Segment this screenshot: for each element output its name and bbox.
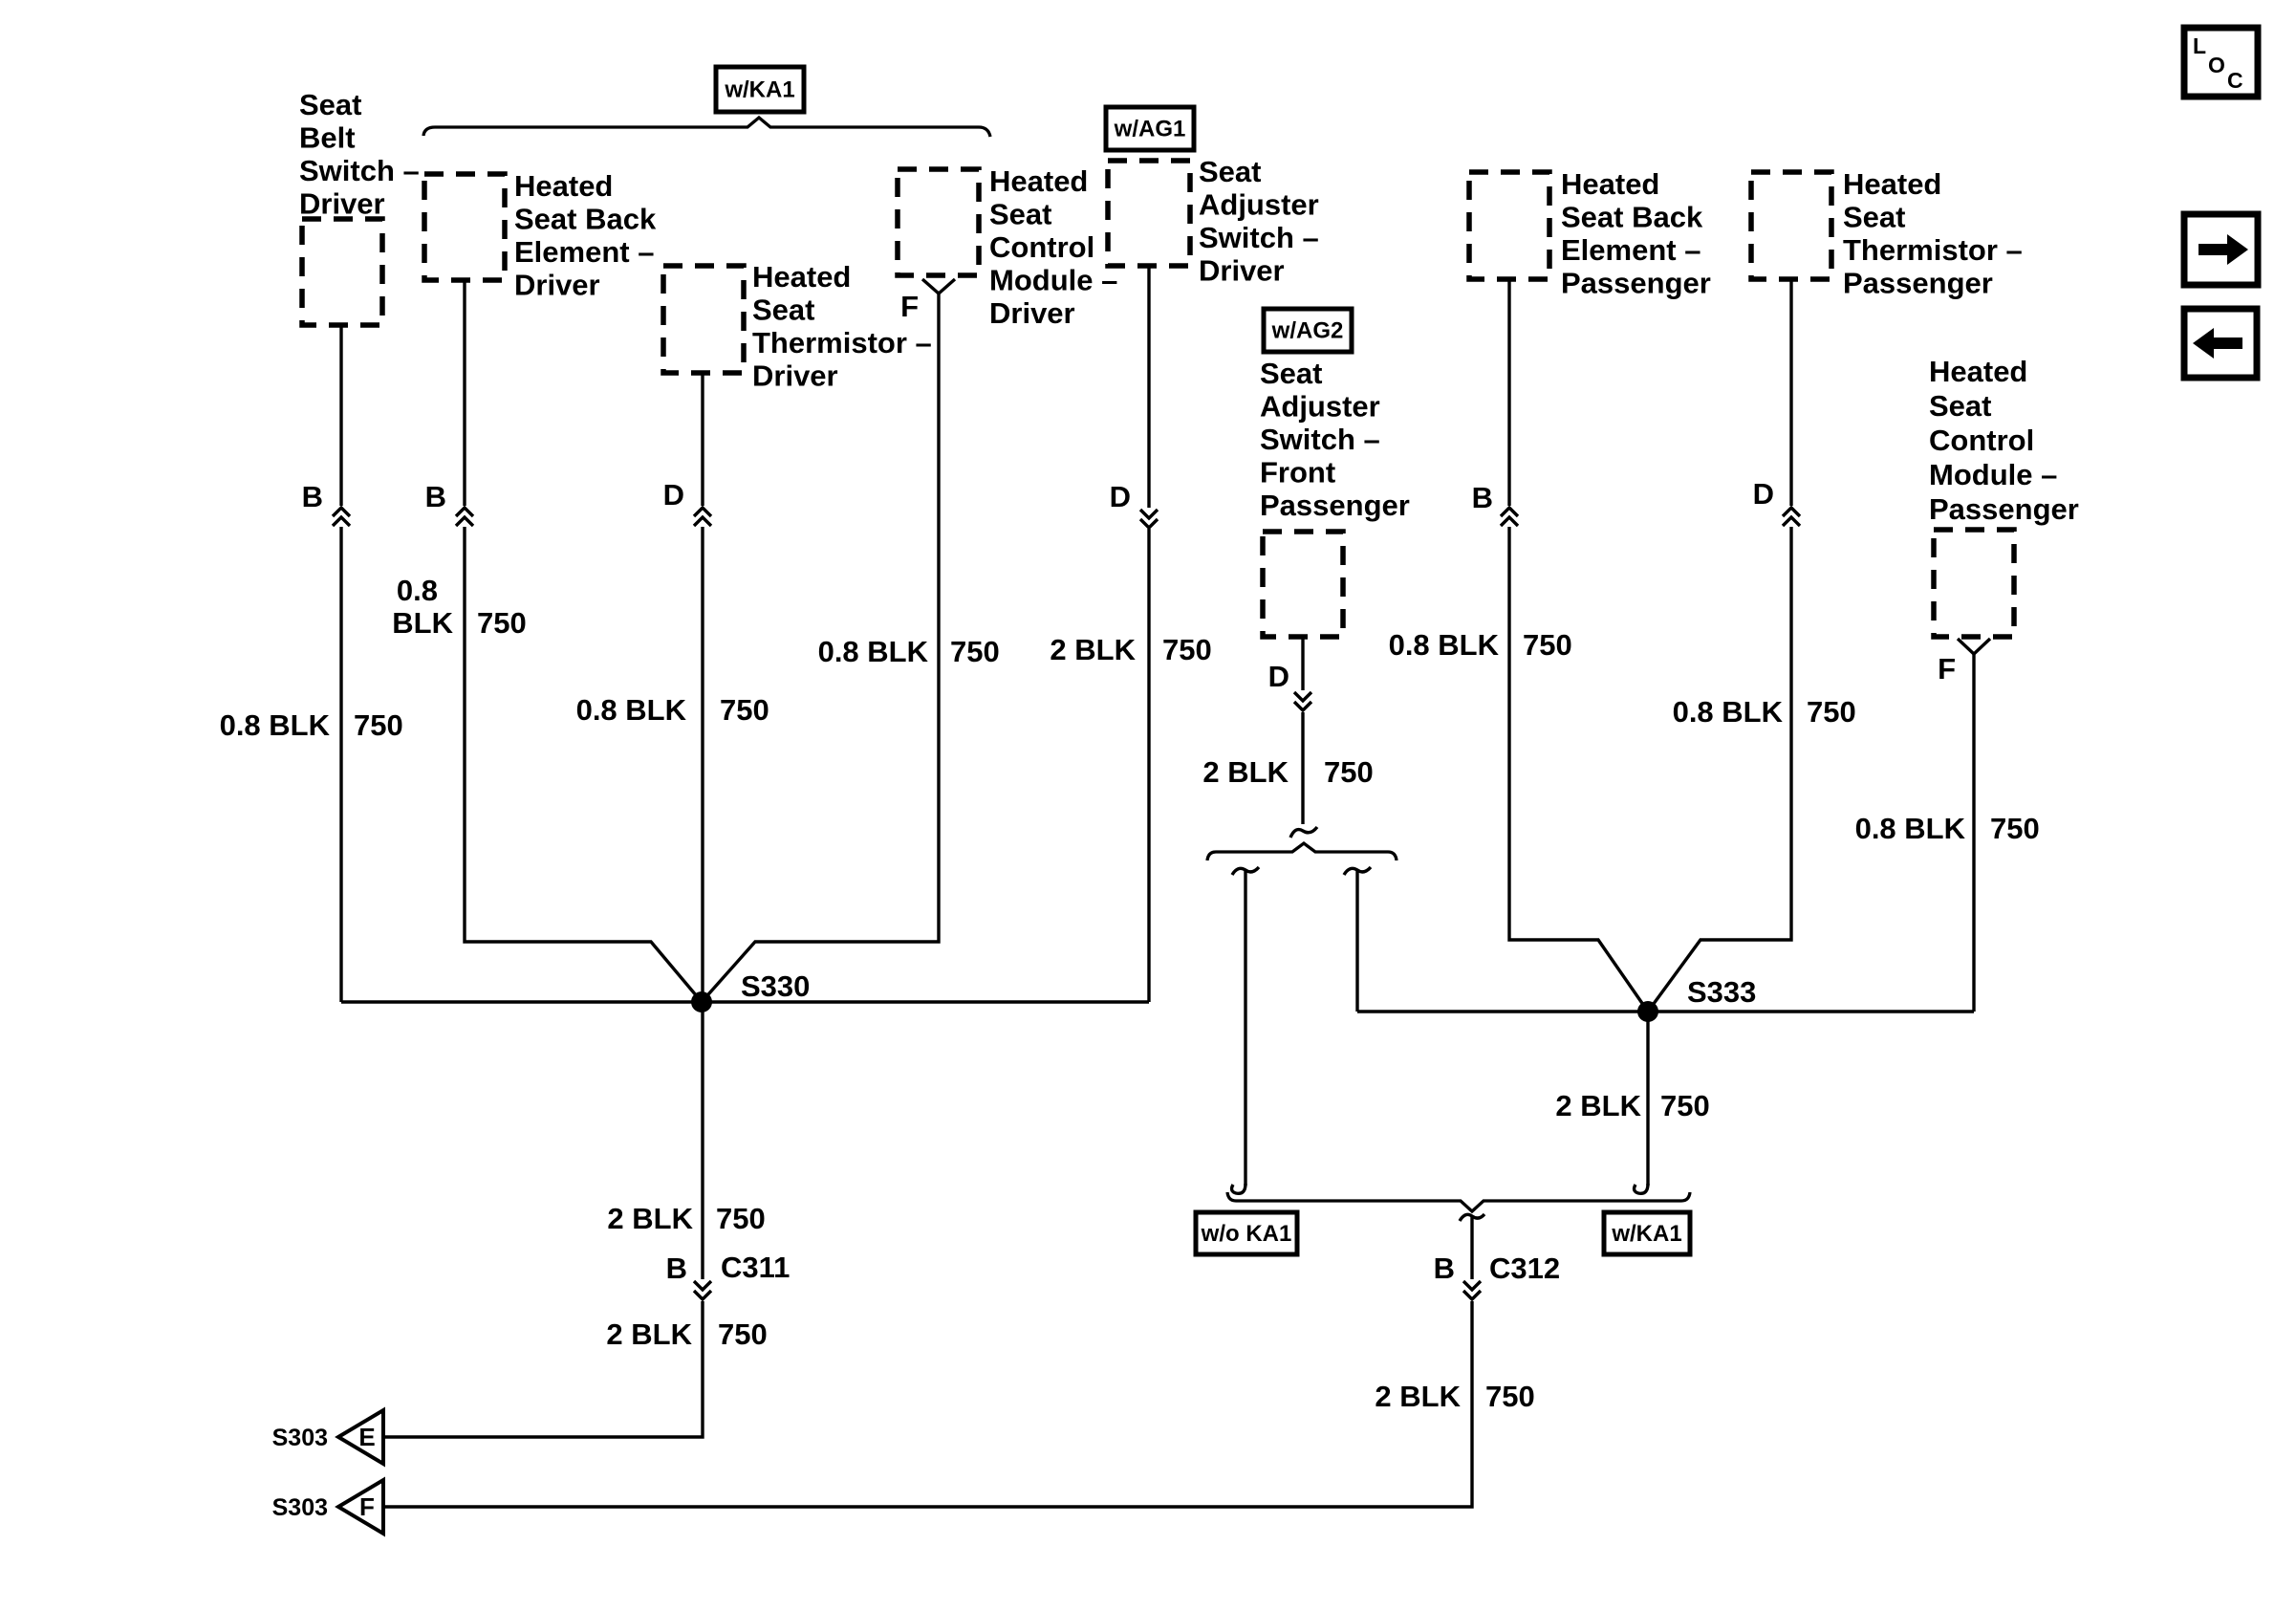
svg-text:Switch –: Switch –	[1199, 221, 1319, 254]
wire start hook (C312 drop)	[1460, 1214, 1484, 1221]
svg-text:S303: S303	[272, 1494, 328, 1521]
wire: adjuster switch driver drop, upper segment	[1147, 266, 1150, 508]
component box: Heated Seat Thermistor - Driver	[663, 266, 744, 373]
svg-text:0.8 BLK: 0.8 BLK	[818, 635, 929, 668]
svg-text:Heated: Heated	[1929, 355, 2027, 388]
svg-text:Driver: Driver	[752, 359, 838, 393]
component box: Heated Seat Back Element - Passenger	[1469, 172, 1549, 279]
wire: thermistor driver drop, upper segment	[701, 373, 704, 506]
svg-text:Seat: Seat	[989, 198, 1051, 231]
svg-text:Passenger: Passenger	[1929, 492, 2079, 526]
svg-text:750: 750	[1162, 633, 1212, 666]
wire end hook (adjuster FP)	[1290, 827, 1317, 838]
svg-text:E: E	[358, 1423, 375, 1451]
svg-text:0.8 BLK: 0.8 BLK	[1673, 695, 1784, 729]
component box: Heated Seat Back Element - Driver	[424, 174, 505, 280]
wire: adjuster switch driver drop to S330 bus right end	[1147, 529, 1150, 1002]
svg-text:Seat: Seat	[1199, 155, 1261, 188]
svg-text:750: 750	[1660, 1089, 1710, 1122]
splice S333 junction dot	[1637, 1001, 1658, 1022]
wire: thermistor passenger drop upper	[1789, 279, 1792, 506]
svg-text:Driver: Driver	[989, 296, 1075, 330]
component box: Seat Adjuster Switch - Front Passenger	[1263, 532, 1343, 637]
svg-text:0.8: 0.8	[397, 574, 438, 607]
svg-text:BLK: BLK	[392, 606, 453, 640]
wire: element passenger drop upper	[1507, 279, 1510, 506]
wire: S330 to C311	[701, 1002, 704, 1279]
svg-text:Heated: Heated	[1561, 167, 1659, 201]
svg-text:Driver: Driver	[514, 269, 600, 302]
wire: element passenger drop to S333 funnel	[1509, 527, 1648, 1012]
svg-text:Seat Back: Seat Back	[514, 203, 657, 236]
svg-text:D: D	[1268, 660, 1289, 693]
svg-text:C: C	[2227, 68, 2243, 93]
svg-text:Control: Control	[989, 230, 1094, 264]
svg-text:D: D	[1753, 477, 1774, 511]
svg-text:Module –: Module –	[989, 264, 1117, 297]
component box: Heated Seat Control Module - Driver	[898, 169, 979, 275]
svg-text:Element –: Element –	[514, 235, 654, 269]
component box: Heated Seat Control Module - Passenger	[1934, 530, 2014, 637]
svg-text:Control: Control	[1929, 424, 2034, 457]
svg-text:B: B	[302, 480, 323, 513]
svg-text:750: 750	[1990, 812, 2040, 845]
svg-text:750: 750	[1324, 755, 1374, 789]
wire: element driver drop, upper segment	[463, 280, 466, 506]
wire: C312 down and left to S303 F	[383, 1301, 1472, 1507]
connector chevrons wire 1	[333, 508, 350, 516]
svg-text:Driver: Driver	[1199, 254, 1285, 288]
brace: alternatives rejoin to C312	[1227, 1192, 1690, 1211]
svg-text:2 BLK: 2 BLK	[1375, 1380, 1461, 1413]
svg-text:750: 750	[1485, 1380, 1535, 1413]
svg-text:S330: S330	[741, 969, 810, 1003]
svg-text:D: D	[663, 478, 684, 512]
svg-text:750: 750	[720, 693, 769, 727]
wire: thermistor passenger drop to S333 funnel	[1648, 527, 1791, 1012]
svg-text:B: B	[425, 480, 446, 513]
svg-text:C312: C312	[1489, 1252, 1560, 1285]
svg-text:Heated: Heated	[514, 169, 613, 203]
svg-text:Thermistor –: Thermistor –	[752, 326, 932, 359]
option box w/KA1 (driver)	[716, 67, 804, 112]
svg-text:2 BLK: 2 BLK	[1050, 633, 1136, 666]
brace for w/KA1 circuit group	[423, 118, 990, 137]
svg-text:Thermistor –: Thermistor –	[1843, 233, 2023, 267]
option box w/AG1	[1106, 107, 1194, 150]
connector chevrons adjuster FP (down)	[1294, 692, 1311, 701]
svg-text:Seat: Seat	[752, 294, 814, 327]
svg-text:B: B	[666, 1252, 687, 1285]
svg-text:750: 750	[354, 708, 403, 742]
svg-text:2 BLK: 2 BLK	[1202, 755, 1289, 789]
right arrow nav box	[2184, 214, 2258, 285]
component box: Heated Seat Thermistor - Passenger	[1751, 172, 1831, 279]
svg-text:D: D	[1110, 480, 1131, 513]
svg-text:750: 750	[1523, 628, 1572, 662]
connector triangle S303 F	[338, 1480, 383, 1534]
svg-text:Seat: Seat	[299, 88, 361, 121]
svg-text:Switch –: Switch –	[299, 154, 420, 187]
component box: Seat Adjuster Switch - Driver	[1108, 161, 1190, 266]
svg-text:F: F	[359, 1492, 375, 1521]
connector chevrons wire 5 (down)	[1140, 510, 1158, 518]
option box w/o KA1	[1196, 1212, 1297, 1254]
svg-text:Switch –: Switch –	[1260, 423, 1380, 456]
svg-text:Heated: Heated	[1843, 167, 1941, 201]
wire: adjuster FP drop lower	[1301, 712, 1304, 824]
splice S333 bus wire	[1357, 1010, 1974, 1012]
wire: w/o KA1 branch	[1244, 870, 1246, 1186]
wire: C311 down and left to S303 E	[383, 1301, 703, 1437]
svg-text:F: F	[1938, 652, 1956, 686]
brace: adjuster FP splits to alternatives	[1207, 843, 1397, 860]
svg-text:S333: S333	[1687, 975, 1756, 1009]
wire start hook (w/KA1 branch)	[1344, 867, 1371, 875]
svg-text:Seat: Seat	[1260, 357, 1322, 390]
svg-text:Driver: Driver	[299, 187, 385, 221]
svg-text:750: 750	[716, 1202, 766, 1235]
wire: S333 down branch	[1646, 1012, 1649, 1186]
left arrow nav box	[2184, 309, 2257, 378]
svg-text:750: 750	[1807, 695, 1856, 729]
wire: brace to C312	[1470, 1216, 1473, 1279]
pin F fork of Heated Seat Control Module - Passenger	[1958, 639, 1990, 654]
svg-text:0.8 BLK: 0.8 BLK	[1389, 628, 1500, 662]
svg-text:O: O	[2208, 53, 2225, 77]
svg-text:w/AG1: w/AG1	[1114, 117, 1186, 142]
svg-text:B: B	[1434, 1252, 1455, 1285]
svg-text:2 BLK: 2 BLK	[606, 1317, 692, 1351]
svg-text:Module –: Module –	[1929, 458, 2057, 491]
svg-text:Passenger: Passenger	[1561, 267, 1711, 300]
option box w/KA1 (lower)	[1604, 1212, 1690, 1254]
svg-text:Seat Back: Seat Back	[1561, 201, 1703, 234]
svg-text:2 BLK: 2 BLK	[607, 1202, 693, 1235]
svg-text:Heated: Heated	[989, 164, 1088, 198]
svg-text:w/AG2: w/AG2	[1271, 318, 1344, 344]
svg-text:Seat: Seat	[1929, 389, 1991, 423]
svg-text:Passenger: Passenger	[1843, 267, 1993, 300]
wire: seat belt switch drop, lower segment to S330 bus	[339, 527, 342, 1002]
svg-text:Belt: Belt	[299, 121, 356, 155]
svg-text:w/o KA1: w/o KA1	[1201, 1221, 1292, 1247]
svg-text:w/KA1: w/KA1	[724, 77, 794, 103]
wire end hook (S333 down)	[1635, 1184, 1648, 1193]
pin F fork of Heated Seat Control Module - Driver	[922, 279, 955, 294]
connector chevrons wire 2	[456, 508, 473, 516]
svg-text:Passenger: Passenger	[1260, 489, 1410, 522]
connector chevrons wire 7	[1783, 508, 1800, 516]
option box w/AG2	[1264, 309, 1352, 352]
svg-text:C311: C311	[721, 1251, 790, 1284]
svg-text:Seat: Seat	[1843, 201, 1905, 234]
svg-text:w/KA1: w/KA1	[1611, 1221, 1681, 1247]
svg-text:750: 750	[477, 606, 527, 640]
svg-text:Element –: Element –	[1561, 233, 1700, 267]
svg-text:0.8 BLK: 0.8 BLK	[576, 693, 687, 727]
wire: w/KA1 branch joins S333 bus	[1355, 870, 1358, 1012]
component box: Seat Belt Switch - Driver	[302, 219, 382, 325]
splice S330 bus wire	[341, 1000, 1149, 1003]
svg-text:750: 750	[950, 635, 1000, 668]
connector chevrons wire 6	[1501, 508, 1518, 516]
connector chevrons wire 3	[694, 508, 711, 516]
wire: seat belt switch drop, upper segment	[339, 325, 342, 506]
svg-text:L: L	[2193, 33, 2206, 58]
svg-text:F: F	[900, 290, 919, 323]
wire: module driver drop to S330 funnel	[702, 294, 939, 1002]
wire: module passenger drop to S333 bus right end	[1972, 654, 1975, 1012]
svg-text:2 BLK: 2 BLK	[1555, 1089, 1641, 1122]
wire: thermistor driver drop to S330	[701, 527, 704, 1002]
wire: element driver drop to S330 funnel	[465, 527, 702, 1002]
svg-text:0.8 BLK: 0.8 BLK	[1855, 812, 1966, 845]
splice S330 junction dot	[691, 991, 712, 1012]
svg-text:0.8 BLK: 0.8 BLK	[220, 708, 331, 742]
connector triangle S303 E	[338, 1410, 383, 1464]
svg-text:Heated: Heated	[752, 260, 851, 294]
svg-text:750: 750	[718, 1317, 768, 1351]
LOC box	[2184, 28, 2258, 97]
svg-text:Adjuster: Adjuster	[1199, 188, 1319, 222]
wire: adjuster FP drop upper	[1301, 637, 1304, 690]
svg-text:Adjuster: Adjuster	[1260, 390, 1380, 424]
wire start hook (w/o KA1 branch)	[1232, 867, 1259, 875]
svg-text:B: B	[1472, 481, 1493, 514]
connector chevrons C311 (down)	[694, 1281, 711, 1290]
svg-text:S303: S303	[272, 1425, 328, 1451]
connector chevrons C312 (down)	[1463, 1281, 1481, 1290]
svg-text:Front: Front	[1260, 456, 1335, 490]
wire end hook (w/o KA1 branch)	[1232, 1184, 1245, 1193]
